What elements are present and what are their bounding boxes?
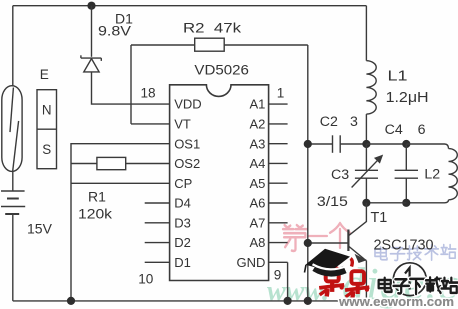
node bottom base vertical (304, 297, 312, 305)
pin stub A1 (269, 103, 288, 105)
battery 15V (1, 190, 25, 192)
svg-text:1.2μH: 1.2μH (386, 90, 429, 106)
wire R2 right segment (224, 44, 308, 46)
watermark pink di (283, 225, 307, 251)
svg-text:3/15: 3/15 (317, 194, 348, 210)
wire emitter with arrow (348, 246, 364, 259)
variable capacitor C3 (365, 144, 367, 170)
svg-text:T1: T1 (371, 210, 388, 226)
svg-text:A1: A1 (249, 97, 265, 112)
node A-line C2 junction (304, 140, 312, 148)
capacitor C2 (332, 135, 334, 153)
wire D1 branch vertical upper (91, 6, 93, 57)
svg-text:6: 6 (418, 122, 426, 138)
wire OS1 (71, 144, 170, 301)
wire L1 to tank node (365, 114, 367, 144)
wire tank bottom (366, 202, 406, 204)
pin stub A2 (269, 123, 288, 125)
watermark pink ge (330, 223, 350, 248)
node base junction (304, 239, 312, 247)
svg-text:OS2: OS2 (174, 156, 200, 171)
pin stub GND (269, 261, 288, 263)
switch E capsule (2, 86, 22, 172)
svg-text:A3: A3 (249, 136, 265, 151)
pin stub A6 (269, 202, 288, 204)
pin stub D3 (145, 222, 170, 224)
wire collector (348, 203, 366, 236)
watermark blue char 2 (407, 246, 421, 260)
zener diode D1 (81, 57, 101, 59)
wire CP (71, 182, 170, 184)
wire left rail from top to switch E (12, 6, 14, 87)
svg-text:120k: 120k (78, 206, 113, 222)
node junction top rail to D1 (87, 2, 95, 10)
pin stub D1 (145, 261, 170, 263)
watermark blue char 1 (390, 248, 404, 261)
magnet outline (37, 90, 57, 169)
svg-text:A6: A6 (249, 196, 265, 211)
resistor R2 (195, 38, 225, 51)
svg-text:CP: CP (174, 176, 192, 191)
svg-text:E: E (40, 67, 49, 82)
wire OS2 left (71, 163, 97, 165)
svg-text:S: S (42, 142, 51, 157)
wire bottom rail (13, 300, 367, 302)
pin stub A3 (269, 143, 288, 145)
wire tank top middle (366, 143, 406, 145)
wire VT vertical from R2 (130, 45, 132, 124)
node tank bottom C3 collector (362, 199, 370, 207)
svg-text:A4: A4 (249, 156, 265, 171)
svg-text:VDD: VDD (174, 97, 201, 112)
svg-text:GND: GND (237, 255, 266, 270)
watermark logo bugs with cap (326, 268, 339, 281)
svg-text:N: N (42, 103, 52, 118)
svg-text:VT: VT (174, 117, 191, 132)
wire tank top right to L2 (406, 144, 448, 149)
svg-text:A7: A7 (249, 215, 265, 230)
watermark site name (379, 278, 392, 292)
svg-text:A8: A8 (249, 235, 265, 250)
svg-text:D1: D1 (174, 255, 191, 270)
svg-text:9: 9 (274, 268, 282, 283)
svg-text:A2: A2 (249, 117, 265, 132)
svg-text:R1: R1 (88, 189, 106, 205)
wire base (308, 242, 349, 244)
node tank top C4 (402, 140, 410, 148)
svg-text:L1: L1 (388, 69, 408, 85)
wire L2 bottom corner (406, 200, 448, 203)
inductor L1 (366, 61, 376, 114)
pin stub D2 (145, 242, 170, 244)
svg-text:C2: C2 (320, 114, 338, 130)
pin stub A8 (269, 242, 288, 244)
svg-text:D2: D2 (174, 235, 191, 250)
switch blade 1 (10, 88, 13, 133)
wire A-side vertical R2-C2-base (307, 45, 309, 301)
pin stub A5 (269, 182, 288, 184)
svg-text:D4: D4 (174, 196, 191, 211)
wire D1 to VDD pin (92, 72, 170, 104)
node bottom OS vertical (67, 297, 75, 305)
inductor L2 (449, 149, 458, 200)
svg-text:3: 3 (350, 114, 358, 130)
svg-text:D3: D3 (174, 215, 191, 230)
wire VT horizontal (131, 123, 170, 125)
watermark blue char 3 (425, 245, 439, 260)
IC U1 VD5026 body (170, 85, 269, 281)
wire top +15V rail (13, 5, 367, 7)
node tank top C3 (362, 140, 370, 148)
resistor R1 (97, 157, 126, 169)
svg-text:10: 10 (138, 272, 154, 287)
watermark pink yi (309, 235, 327, 237)
pin stub D4 (145, 202, 170, 204)
watermark blue char 0 (375, 247, 387, 260)
wire tank top left (308, 143, 333, 145)
node tank bottom C4 (402, 199, 410, 207)
pin stub A4 (269, 162, 288, 164)
pin stub A7 (269, 222, 288, 224)
watermark circled 1 (393, 263, 426, 296)
svg-text:15V: 15V (27, 221, 53, 237)
watermark blue char 4 (441, 245, 456, 259)
svg-text:R2 47k: R2 47k (183, 21, 242, 37)
svg-text:1: 1 (277, 85, 285, 100)
wire top rail corner down to L1 (365, 6, 367, 61)
wire capsule to battery (12, 171, 14, 191)
svg-text:A5: A5 (249, 176, 265, 191)
node bottom GND pin (284, 297, 292, 305)
svg-text:OS1: OS1 (174, 136, 200, 151)
wire R2 left segment (131, 44, 195, 46)
wire GND pin 9 down (287, 262, 289, 301)
switch blade 2 (13, 121, 19, 171)
svg-text:18: 18 (141, 85, 156, 100)
wire battery to bottom rail (12, 214, 14, 301)
svg-text:C4: C4 (385, 122, 403, 138)
svg-text:2SC1730: 2SC1730 (374, 237, 434, 253)
capacitor C4 (405, 144, 407, 170)
svg-text:www.eeworm.com: www.eeworm.com (338, 295, 454, 309)
wire OS2 right (126, 163, 170, 165)
transistor T1 base bar (347, 230, 349, 252)
magnet divider (37, 128, 57, 130)
svg-text:C3: C3 (331, 167, 349, 183)
svg-text:L2: L2 (424, 167, 440, 183)
svg-text:VD5026: VD5026 (194, 63, 249, 79)
svg-text:9.8V: 9.8V (98, 23, 132, 39)
